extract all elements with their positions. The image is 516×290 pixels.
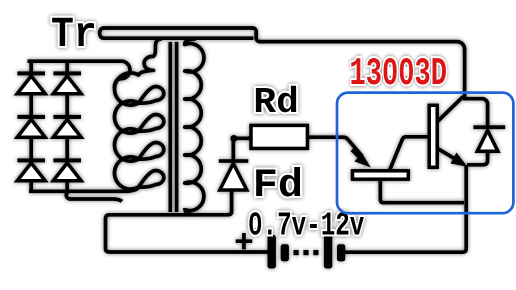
battery BT1 plate short right <box>337 244 345 261</box>
wire collector junction to damper diode top <box>463 99 488 126</box>
wire secondary bottom to Fd anode <box>185 208 193 215</box>
diode D6 <box>53 158 81 180</box>
svg-text:13003D: 13003D <box>350 53 447 97</box>
transformer Tr primary winding <box>114 39 163 192</box>
diode D7 damper cathode bar <box>473 125 505 129</box>
wire Fd cathode up to node <box>231 139 235 160</box>
wire diode-stack bottom rail <box>29 189 124 193</box>
resistor Rd <box>251 125 307 148</box>
battery BT1 gap dots <box>294 250 299 255</box>
wire top bus lower line with left U cap <box>100 28 254 38</box>
diode D5 <box>53 115 81 137</box>
transistor Q1 base arrow extra barb <box>352 150 363 161</box>
wire Rd to base with bend <box>307 137 362 156</box>
transistor Q2 bar <box>429 105 437 167</box>
transistor Q2 emitter arrowhead <box>451 153 468 167</box>
svg-text:Rd: Rd <box>253 83 298 124</box>
wire node to Rd <box>234 136 252 140</box>
wire bottom return with cap down to battery rail <box>66 191 122 201</box>
transistor Q2 emitter diagonal <box>438 149 457 160</box>
transistor Q1 emitter down to node rail <box>380 180 464 203</box>
wire right diode column stubs <box>65 60 69 193</box>
battery BT1 plate long left <box>268 235 276 269</box>
battery plus sign <box>236 233 253 249</box>
svg-text:Tr: Tr <box>51 12 97 60</box>
diode D3 <box>17 158 45 180</box>
svg-text:Fd: Fd <box>253 164 303 209</box>
diode Fd <box>219 159 249 190</box>
diode D7 damper triangle <box>477 131 498 152</box>
diode D1 <box>17 71 45 93</box>
transistor Q2 collector diagonal <box>438 97 464 122</box>
transformer Tr secondary winding <box>185 39 204 211</box>
wire diode-stack top rail with U-turn into primary top lead <box>28 61 130 88</box>
wire top bus upper line from stub to right corner down to collector junction <box>104 28 465 97</box>
battery BT1 plate long right <box>324 235 332 269</box>
diode D7 damper anode lead <box>467 152 488 165</box>
wire left diode column stubs <box>29 60 33 193</box>
IC box U1 13003D outline <box>337 93 513 214</box>
wire emitter node down to bottom rail corner <box>345 165 466 252</box>
diode D4 <box>53 71 81 93</box>
transformer Tr core <box>170 42 176 212</box>
diode D2 <box>17 115 45 137</box>
wire battery positive riser and bottom rail left <box>106 191 269 253</box>
node junction dot <box>230 135 237 142</box>
transistor Q1 collector link to Q2 base <box>390 137 430 171</box>
battery BT1 plate short left <box>281 244 289 261</box>
transistor Q1 base arrowhead <box>354 153 370 167</box>
transistor Q1 bar <box>353 171 409 179</box>
